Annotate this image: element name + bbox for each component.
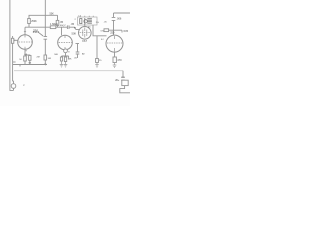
bus ground dark xyxy=(13,64,47,66)
capacitor C7 xyxy=(96,59,99,63)
svg-text:250: 250 xyxy=(110,32,115,35)
wire mid coupling xyxy=(25,27,80,29)
tick V1 bottom xyxy=(25,50,27,52)
wire antenna lead left inner xyxy=(12,36,15,84)
winding W3 circle xyxy=(84,20,87,23)
output box SPK xyxy=(122,80,128,85)
svg-text:.05: .05 xyxy=(60,20,64,24)
capacitor C6 xyxy=(76,52,80,54)
svg-text:470: 470 xyxy=(117,58,122,62)
wire cathode V4 xyxy=(114,52,116,57)
svg-text:20+: 20+ xyxy=(115,79,120,82)
svg-text:250: 250 xyxy=(33,28,38,32)
switch SW1 tick xyxy=(13,61,16,63)
svg-text:.05: .05 xyxy=(71,22,75,26)
wire cathode V2 xyxy=(62,53,69,60)
svg-text:.006: .006 xyxy=(116,17,122,21)
capacitor C3 xyxy=(44,37,48,40)
winding W2 xyxy=(85,18,92,25)
cathode circle V2 xyxy=(64,49,68,53)
tube V3 xyxy=(79,27,92,40)
wire output exit xyxy=(120,86,130,93)
capacitor C9 xyxy=(121,77,125,80)
tube V1 xyxy=(18,35,33,50)
plate tick V2 xyxy=(64,36,66,50)
wire AVC riser xyxy=(44,15,46,55)
pin ticks box top xyxy=(80,16,93,17)
tube V2 xyxy=(58,35,73,50)
capacitor C2 xyxy=(29,56,31,61)
junction tick bus xyxy=(19,65,21,67)
IF box T1 xyxy=(78,17,98,25)
junction dot grid V4 xyxy=(113,30,114,31)
svg-text:OS: OS xyxy=(101,30,105,32)
resistor R1 xyxy=(28,19,31,24)
svg-text:6SQ7: 6SQ7 xyxy=(60,25,66,27)
svg-text:50K: 50K xyxy=(54,54,58,56)
ground G2 xyxy=(60,61,64,67)
svg-text:6V6: 6V6 xyxy=(124,29,129,33)
ground G5 xyxy=(113,63,117,68)
wire grid drop V2 xyxy=(61,27,63,35)
resistor R3 xyxy=(44,55,47,60)
capacitor C5 xyxy=(60,57,62,61)
wire R1 bottom lead xyxy=(28,24,30,28)
grid dashes V1 xyxy=(19,41,33,43)
plate tick V4 xyxy=(114,36,116,52)
bus faint B- xyxy=(14,70,123,72)
plate tick V1 xyxy=(24,35,26,49)
wire V3 inner xyxy=(83,28,87,38)
ground G3 xyxy=(64,62,68,68)
wire grid V4 top xyxy=(114,13,131,35)
annotation arrow xyxy=(38,32,43,36)
wire drop to C7 xyxy=(96,36,98,59)
wire cathode V1 xyxy=(24,49,26,56)
wire box to V3 xyxy=(84,25,86,27)
wire to output xyxy=(122,71,124,81)
winding W1 xyxy=(80,19,82,24)
resistor R2 xyxy=(24,56,27,61)
svg-text:5M: 5M xyxy=(48,58,51,60)
wire plate V1 top xyxy=(24,27,26,35)
wire R3 bottom arrow xyxy=(45,60,47,65)
wire cathode tie xyxy=(25,55,30,65)
grid dashes V2 xyxy=(59,42,73,44)
svg-text:6J: 6J xyxy=(101,39,103,41)
svg-text:7A7: 7A7 xyxy=(82,39,87,43)
wire B+ bus top xyxy=(29,15,58,18)
svg-text:250K: 250K xyxy=(31,20,37,23)
svg-text:2G: 2G xyxy=(96,22,99,24)
wire antenna lead left outer xyxy=(10,0,14,90)
wire plate V2 xyxy=(76,43,80,45)
grid dashes V3 xyxy=(80,32,90,34)
capacitor C4 xyxy=(67,25,69,29)
junction tick V1 top xyxy=(24,30,26,32)
ground G4 xyxy=(95,63,99,68)
wire plate feed y30 xyxy=(109,30,122,32)
resistor R6 xyxy=(64,57,66,62)
svg-text:50K: 50K xyxy=(72,32,77,36)
grid dashes V4 xyxy=(107,42,122,44)
coil L1 xyxy=(11,38,13,43)
wire det to V4 xyxy=(93,25,107,36)
tube V4 xyxy=(106,35,123,52)
svg-text:2M: 2M xyxy=(37,57,40,59)
resistor R5 xyxy=(56,20,59,25)
labels xyxy=(19,12,128,87)
resistor R8 xyxy=(113,57,116,63)
capacitor C8 xyxy=(112,17,116,20)
wire coupling drop xyxy=(77,44,79,59)
wire jack bottom lead xyxy=(13,88,15,90)
jack J1 xyxy=(11,84,16,89)
wire grid V1 xyxy=(14,40,18,42)
wire screen drop xyxy=(57,15,59,27)
resistor R7 xyxy=(104,29,109,32)
wire riser to top edge xyxy=(44,0,46,15)
svg-text:1 MEG: 1 MEG xyxy=(50,22,58,26)
svg-text:50K: 50K xyxy=(50,12,55,15)
resistor R4 xyxy=(50,26,56,29)
